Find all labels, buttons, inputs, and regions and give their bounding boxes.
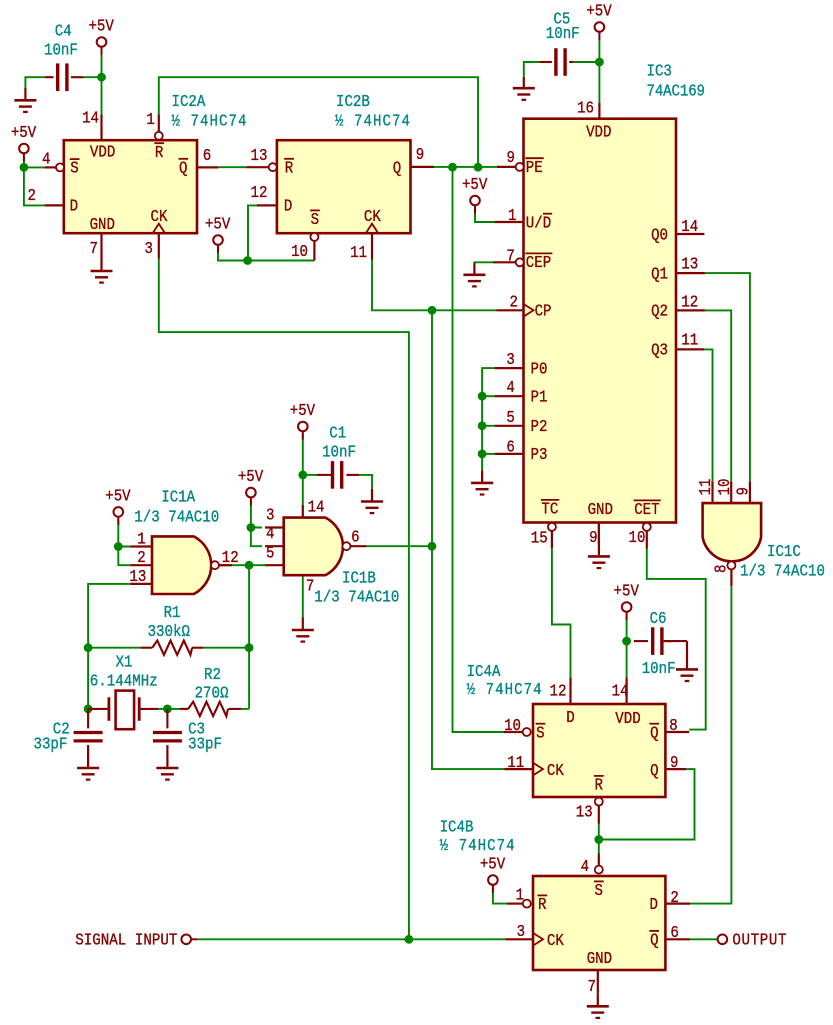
svg-text:CK: CK (547, 931, 564, 951)
svg-text:3: 3 (517, 922, 525, 942)
svg-text:+5V: +5V (88, 16, 114, 36)
wire X1 right to R2 left (158, 708, 180, 710)
svg-text:Q3: Q3 (651, 341, 668, 361)
svg-text:S: S (311, 210, 319, 230)
svg-text:R: R (285, 158, 293, 178)
capacitor C6 (634, 609, 676, 679)
svg-text:D: D (70, 197, 78, 217)
wire IC1B pin7 to ground (302, 575, 304, 617)
svg-text:R: R (595, 775, 603, 795)
wire IC1A out node down (248, 565, 250, 648)
wire R1 node down to X1 (87, 648, 89, 709)
svg-text:Q: Q (650, 761, 658, 781)
ground P0-P3 (471, 470, 493, 494)
power +5V IC1A (105, 486, 131, 525)
junction C5 (595, 58, 604, 67)
svg-text:+5V: +5V (462, 175, 488, 195)
wire IC4A Q to R node (599, 769, 695, 839)
svg-text:9: 9 (416, 145, 424, 165)
power +5V C6/IC4A VDD (614, 581, 640, 620)
svg-text:+5V: +5V (11, 123, 37, 143)
svg-text:GND: GND (90, 215, 115, 235)
svg-text:330kΩ: 330kΩ (148, 622, 190, 642)
svg-text:IC1B: IC1B (342, 568, 376, 588)
wire IC3 Q1 to IC1C pin9 (705, 273, 750, 481)
svg-text:VDD: VDD (586, 122, 611, 142)
svg-text:D: D (566, 708, 574, 728)
ground IC1B pin7 (292, 618, 314, 642)
wire IC4A R to IC4B S (598, 824, 600, 854)
wire net R1A from IC2A pin1 to IC3 PE junction (159, 77, 478, 167)
svg-text:11: 11 (507, 753, 524, 773)
svg-text:P3: P3 (531, 445, 548, 465)
wire IC1A out to IC1B pin5 (219, 564, 265, 566)
svg-text:14: 14 (308, 497, 325, 517)
svg-text:16: 16 (577, 98, 594, 118)
svg-text:10: 10 (628, 528, 645, 548)
junction IC4A R/S (594, 835, 603, 844)
wire IC3 Q2 to IC1C pin10 (705, 310, 731, 481)
wire C4 left to ground (25, 77, 44, 88)
svg-text:2: 2 (28, 186, 36, 206)
ground C2 (77, 745, 99, 780)
svg-text:7: 7 (306, 576, 314, 596)
svg-text:IC2B: IC2B (336, 92, 370, 112)
junction IC1A out (245, 561, 254, 570)
svg-text:IC4A: IC4A (467, 662, 501, 682)
wire IC2A S to D tie (24, 157, 45, 205)
wire IC1B inputs tie (251, 500, 262, 546)
svg-text:4: 4 (266, 524, 274, 544)
power +5V C1/IC1B VDD (290, 401, 316, 440)
ground C6 (664, 641, 698, 681)
nand-gate IC1C 1/3 74AC10 (696, 479, 825, 587)
wire +5V G to IC3 U/D (475, 209, 495, 223)
junction C6 (622, 637, 631, 646)
svg-text:12: 12 (549, 681, 566, 701)
capacitor C4 (44, 21, 84, 91)
flip-flop IC4A 1/2 74HC74 (467, 662, 690, 824)
svg-text:11: 11 (696, 479, 716, 496)
svg-text:13: 13 (129, 567, 146, 587)
svg-text:VDD: VDD (90, 142, 115, 162)
svg-text:10nF: 10nF (546, 24, 580, 44)
wire C1 right to ground (359, 475, 372, 489)
wire IC3 Q3 to IC1C pin11 (704, 349, 713, 481)
svg-text:Q: Q (650, 723, 658, 743)
svg-text:PE: PE (526, 158, 543, 178)
svg-text:S: S (70, 159, 78, 179)
wire IC2B Q to IC3 PE (434, 166, 497, 168)
wire SIGNAL INPUT to IC4B CK (197, 938, 505, 940)
svg-text:9: 9 (670, 753, 678, 773)
nand-gate IC1B 1/3 74AC10 (265, 497, 399, 607)
svg-text:3: 3 (266, 505, 274, 525)
port OUTPUT (718, 930, 787, 950)
svg-text:+5V: +5V (480, 854, 506, 874)
svg-text:2: 2 (510, 292, 518, 312)
junction IC2A S/D (20, 163, 29, 172)
junction signal input (405, 935, 414, 944)
svg-text:P2: P2 (531, 417, 548, 437)
svg-text:7: 7 (588, 977, 596, 997)
wire R2 right to R1 node (241, 648, 249, 709)
svg-text:12: 12 (222, 548, 239, 568)
svg-text:U/D: U/D (526, 213, 551, 233)
svg-text:74AC169: 74AC169 (647, 81, 706, 101)
junction C4/+5V/VDD (97, 73, 106, 82)
junction IC2B +5V tie (243, 256, 252, 265)
svg-text:4: 4 (42, 149, 50, 169)
svg-text:6: 6 (506, 437, 514, 457)
svg-text:IC1A: IC1A (161, 487, 195, 507)
svg-text:12: 12 (250, 183, 267, 203)
svg-text:6: 6 (670, 923, 678, 943)
svg-text:+5V: +5V (105, 486, 131, 506)
wire IC3 CET to IC4A Qbar (647, 549, 706, 730)
svg-text:Q: Q (393, 158, 401, 178)
svg-text:13: 13 (250, 146, 267, 166)
svg-text:1: 1 (146, 110, 154, 130)
wire +5V J to IC4B R (493, 888, 507, 904)
svg-text:14: 14 (612, 681, 629, 701)
wire vertical node B x=432 (432, 310, 504, 769)
wire C6 to ground (0, 0, 1, 1)
junction P1 (478, 392, 487, 401)
svg-text:6: 6 (203, 146, 211, 166)
power +5V IC2B D (205, 214, 231, 253)
svg-text:13: 13 (576, 802, 593, 822)
svg-text:C1: C1 (329, 423, 346, 443)
wire C4 right to +5V junction (84, 76, 102, 78)
svg-text:11: 11 (350, 243, 367, 263)
svg-text:GND: GND (588, 500, 613, 520)
junction R1 left (84, 643, 93, 652)
nand-gate IC1A 1/3 74AC10 (129, 487, 238, 594)
wire vertical node A x=452.5 (453, 167, 504, 732)
svg-text:13: 13 (681, 254, 698, 274)
svg-text:2: 2 (137, 548, 145, 568)
wire IC3 TC to IC4A D (552, 548, 571, 677)
svg-text:½ 74HC74: ½ 74HC74 (467, 680, 542, 700)
junction X1 left (84, 705, 93, 714)
port SIGNAL INPUT (75, 930, 197, 950)
crystal X1 (88, 652, 158, 729)
capacitor C1 (317, 423, 359, 488)
svg-text:CK: CK (364, 207, 381, 227)
wire IC1A inputs tie (118, 520, 130, 566)
flip-flop IC2B 1/2 74HC74 (246, 92, 434, 263)
wire IC2A CK3 down-right-down to signal node (159, 259, 409, 940)
svg-text:OUTPUT: OUTPUT (732, 930, 786, 950)
wire P0-P3 tie to ground (482, 368, 495, 470)
svg-text:4: 4 (506, 378, 514, 398)
svg-text:SIGNAL INPUT: SIGNAL INPUT (75, 930, 177, 950)
junction P3 (478, 450, 487, 459)
counter IC3 74AC169 (493, 61, 705, 548)
svg-text:4: 4 (581, 857, 589, 877)
svg-text:14: 14 (681, 217, 698, 237)
svg-text:+5V: +5V (238, 467, 264, 487)
svg-text:S: S (595, 881, 603, 901)
svg-text:½ 74HC74: ½ 74HC74 (335, 111, 410, 131)
wire IC1C out to IC4B D (690, 586, 731, 904)
svg-text:D: D (650, 895, 658, 915)
power +5V C4/IC2A VDD (88, 16, 114, 55)
svg-text:10nF: 10nF (642, 659, 676, 679)
wire R1 right lead net (203, 647, 249, 649)
wire +5V I / C6 to IC4A VDD (626, 615, 628, 677)
svg-text:+5V: +5V (290, 401, 316, 421)
power +5V IC4B R (480, 854, 506, 893)
svg-text:1: 1 (508, 206, 516, 226)
ground C4 (14, 88, 36, 112)
svg-text:10nF: 10nF (322, 442, 356, 462)
svg-text:C4: C4 (55, 21, 72, 41)
svg-text:1: 1 (137, 529, 145, 549)
svg-text:14: 14 (82, 108, 99, 128)
ground CEP (463, 263, 485, 286)
svg-text:S: S (536, 723, 544, 743)
capacitor C3 (153, 709, 222, 754)
svg-text:P0: P0 (531, 359, 548, 379)
wire IC2B D/S tie to +5V (218, 205, 314, 260)
svg-text:270Ω: 270Ω (195, 683, 229, 703)
power +5V IC1B inputs (238, 467, 264, 506)
svg-text:CET: CET (634, 500, 659, 520)
svg-text:8: 8 (669, 716, 677, 736)
svg-text:Q0: Q0 (651, 225, 668, 245)
svg-text:IC2A: IC2A (172, 92, 206, 112)
junction P2 (478, 421, 487, 430)
svg-text:1/3 74AC10: 1/3 74AC10 (134, 507, 219, 527)
svg-text:7: 7 (90, 239, 98, 259)
power +5V C5/IC3 VDD (586, 1, 612, 40)
svg-text:9: 9 (733, 487, 753, 495)
junction IC1B pin3 (247, 523, 256, 532)
svg-text:3: 3 (506, 350, 514, 370)
wire +5V F / C1 tie (303, 434, 317, 505)
svg-text:+5V: +5V (205, 214, 231, 234)
wire C5 net (524, 39, 600, 103)
svg-text:1: 1 (516, 885, 524, 905)
svg-text:R: R (538, 895, 546, 915)
svg-text:6.144MHz: 6.144MHz (90, 671, 158, 691)
svg-text:CEP: CEP (526, 253, 551, 273)
svg-text:+5V: +5V (586, 1, 612, 21)
ground IC2A pin7 (91, 233, 113, 282)
svg-text:8: 8 (711, 565, 731, 573)
svg-text:3: 3 (145, 239, 153, 259)
svg-text:10: 10 (291, 242, 308, 262)
svg-text:Q1: Q1 (651, 264, 668, 284)
wire IC2A Q to IC2B R (218, 166, 246, 168)
junction R1 right (245, 643, 254, 652)
junction CP node B (428, 306, 437, 315)
svg-text:R: R (155, 143, 163, 163)
svg-text:9: 9 (589, 528, 597, 548)
ground IC3 GND pin9 (588, 523, 610, 569)
ground C5 (513, 77, 535, 100)
junction IC1B out node B (428, 542, 437, 551)
svg-text:10: 10 (715, 479, 735, 496)
junction X1 right (163, 705, 172, 714)
junction PE node A (448, 163, 457, 172)
flip-flop IC4B 1/2 74HC74 (440, 817, 691, 996)
svg-text:CK: CK (547, 761, 564, 781)
svg-text:33pF: 33pF (188, 734, 222, 754)
wire IC4B Q to OUTPUT (690, 938, 718, 940)
wire CEP to ground (474, 261, 493, 264)
svg-text:R1: R1 (164, 603, 181, 623)
junction PE node R1A (474, 163, 483, 172)
svg-text:10nF: 10nF (44, 40, 78, 60)
svg-text:CP: CP (535, 301, 552, 321)
svg-text:P1: P1 (531, 387, 548, 407)
wire IC2B CK11 to IC3 CP (372, 260, 497, 311)
svg-text:X1: X1 (116, 652, 133, 672)
svg-text:CK: CK (151, 207, 168, 227)
svg-text:Q: Q (179, 158, 187, 178)
junction C1 (298, 471, 307, 480)
svg-text:5: 5 (266, 543, 274, 563)
svg-text:10: 10 (504, 716, 521, 736)
svg-text:GND: GND (587, 949, 612, 969)
svg-text:C6: C6 (650, 609, 667, 629)
svg-text:IC1C: IC1C (767, 542, 801, 562)
svg-text:½ 74HC74: ½ 74HC74 (172, 111, 247, 131)
resistor R2 (180, 665, 241, 716)
capacitor C5 (540, 9, 580, 76)
svg-text:7: 7 (506, 246, 514, 266)
power +5V IC2A S (11, 123, 37, 162)
svg-text:5: 5 (506, 408, 514, 428)
ground C1 (361, 489, 383, 513)
svg-text:33pF: 33pF (34, 734, 68, 754)
svg-text:+5V: +5V (614, 581, 640, 601)
svg-text:IC3: IC3 (647, 61, 672, 81)
wire +5V A down to IC2A VDD (101, 55, 103, 115)
svg-text:VDD: VDD (615, 709, 640, 729)
svg-text:15: 15 (531, 528, 548, 548)
wire R1 left lead net (88, 647, 140, 649)
flip-flop IC2A 1/2 74HC74 (28, 92, 247, 259)
svg-text:½ 74HC74: ½ 74HC74 (440, 836, 515, 856)
svg-text:1/3 74AC10: 1/3 74AC10 (740, 561, 825, 581)
ground C3 (156, 745, 178, 780)
svg-text:9: 9 (507, 148, 515, 168)
svg-text:TC: TC (541, 499, 558, 519)
resistor R1 (141, 603, 204, 655)
svg-text:Q2: Q2 (651, 302, 668, 322)
svg-text:IC4B: IC4B (440, 817, 474, 837)
junction IC1A pin1 (114, 542, 123, 551)
wire IC1B out to node B (366, 545, 432, 547)
power +5V IC3 U/D (462, 175, 488, 214)
svg-text:R2: R2 (204, 665, 221, 685)
svg-text:11: 11 (681, 330, 698, 350)
svg-text:D: D (284, 197, 292, 217)
svg-text:12: 12 (681, 292, 698, 312)
svg-text:Q: Q (650, 930, 658, 950)
svg-text:1/3 74AC10: 1/3 74AC10 (314, 587, 399, 607)
svg-text:2: 2 (670, 888, 678, 908)
ground IC4B pin7 (587, 970, 609, 1018)
capacitor C2 (34, 709, 103, 754)
wire IC1A pin13 from R1 node (88, 584, 130, 648)
svg-text:6: 6 (351, 528, 359, 548)
